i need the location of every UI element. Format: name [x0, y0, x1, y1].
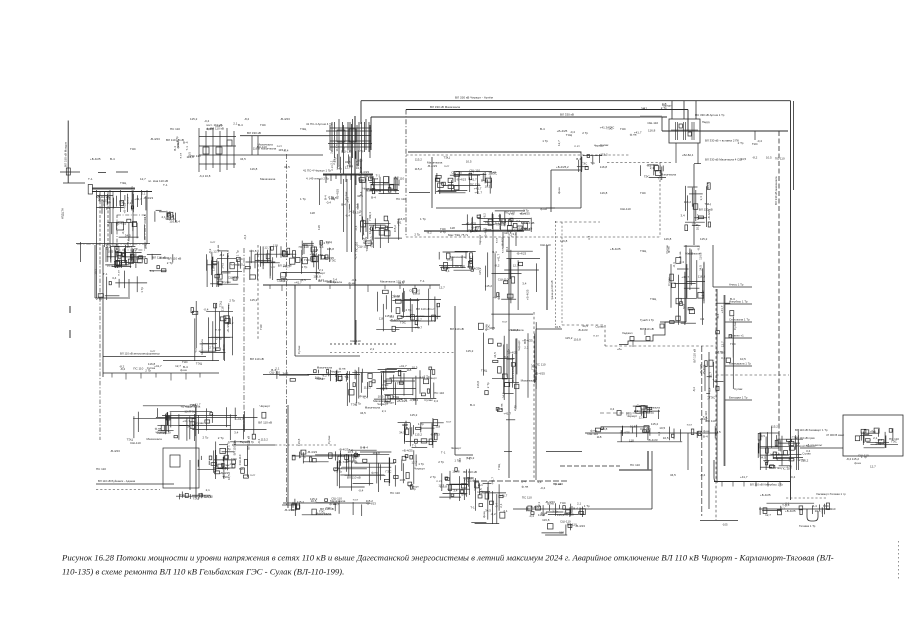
- svg-text:2 Тр: 2 Тр: [497, 213, 501, 219]
- svg-text:-0,4: -0,4: [326, 201, 332, 205]
- svg-text:ВЛ 110 кВ: ВЛ 110 кВ: [692, 349, 696, 363]
- wire long bus y285: [263, 284, 440, 286]
- svg-text:2 Тр: 2 Тр: [661, 106, 667, 110]
- svg-text:СШ-110: СШ-110: [130, 441, 141, 445]
- svg-text:-В-4/23: -В-4/23: [430, 433, 440, 437]
- svg-text:2,1: 2,1: [634, 409, 639, 413]
- svg-text:10,5: 10,5: [498, 223, 502, 229]
- boundary dashed right upper: [607, 162, 672, 164]
- right upper labels: [738, 139, 785, 161]
- svg-text:ф.на: ф.на: [114, 243, 118, 250]
- svg-text:115,2: 115,2: [261, 437, 269, 441]
- svg-text:Т-1: Т-1: [657, 176, 662, 180]
- labels right column: [795, 428, 828, 448]
- svg-text:Т-1: Т-1: [103, 272, 108, 276]
- svg-text:116,8: 116,8: [297, 438, 301, 446]
- svg-text:116,8: 116,8: [351, 454, 359, 458]
- boundary dash v716: [715, 289, 717, 520]
- wire staircase h322: [660, 321, 686, 323]
- wire right frame inner pair: [793, 101, 795, 190]
- wire x286 bottom hook: [282, 504, 295, 506]
- svg-text:п.ст: п.ст: [436, 479, 442, 483]
- bus285 label row: [277, 274, 357, 285]
- svg-text:В-4: В-4: [492, 250, 497, 254]
- wire third top bus: [371, 116, 667, 118]
- svg-text:12,7: 12,7: [130, 249, 136, 253]
- svg-text:ПС 110: ПС 110: [775, 156, 785, 160]
- svg-text:ф.на: ф.на: [540, 207, 547, 211]
- svg-text:Т-1: Т-1: [376, 174, 381, 178]
- svg-text:3,4: 3,4: [699, 196, 703, 201]
- boundary dashed top: [406, 154, 630, 156]
- svg-text:-8,2: -8,2: [494, 264, 500, 268]
- svg-text:+41,7: +41,7: [154, 364, 162, 368]
- svg-text:1 Тр: 1 Тр: [418, 462, 424, 466]
- left mid cluster extra: [94, 269, 148, 300]
- chain x509 side labels: [476, 314, 546, 400]
- svg-text:+41,7: +41,7: [503, 411, 511, 415]
- svg-text:3,4: 3,4: [587, 235, 591, 240]
- svg-text:-0,4: -0,4: [529, 514, 535, 518]
- svg-text:116,8: 116,8: [250, 167, 258, 171]
- svg-text:10,5: 10,5: [107, 264, 113, 268]
- svg-text:ПС 110: ПС 110: [257, 145, 267, 149]
- wire hook tyagovaya: [807, 509, 818, 521]
- substation hub upper ladder: [306, 119, 371, 174]
- bottom tiny cluster mid: [542, 518, 586, 535]
- h433 components: [587, 422, 721, 443]
- bus left substation thin pair: [92, 191, 152, 193]
- mid labels y330: [555, 324, 605, 341]
- wire left edge vertical: [80, 242, 82, 262]
- svg-text:Т-1: Т-1: [88, 177, 93, 181]
- svg-text:ф.на: ф.на: [854, 461, 861, 465]
- wire h285 ext ticks: [330, 284, 440, 286]
- wire v701 dash: [701, 346, 703, 516]
- substation Artem 330kV box: [669, 119, 700, 143]
- svg-text:+41,7: +41,7: [485, 220, 493, 224]
- svg-text:Сулак: Сулак: [637, 403, 646, 407]
- svg-text:ПС 110: ПС 110: [396, 197, 406, 201]
- svg-text:п.ст: п.ст: [281, 274, 287, 278]
- h373 taps: [112, 373, 200, 381]
- substation cluster c20: [245, 244, 326, 280]
- svg-text:СШ-110: СШ-110: [498, 278, 509, 282]
- svg-text:1 Тр: 1 Тр: [454, 459, 460, 463]
- svg-text:Т-1: Т-1: [149, 269, 154, 273]
- svg-text:ВЛ 110 кВ: ВЛ 110 кВ: [640, 327, 654, 331]
- svg-text:+41,7: +41,7: [399, 364, 407, 368]
- wire chain x509 lower: [508, 310, 510, 478]
- svg-text:2,1: 2,1: [524, 345, 529, 349]
- wire x536 corner v: [535, 329, 537, 480]
- wire v95: [94, 245, 96, 298]
- svg-text:3,4: 3,4: [721, 356, 726, 360]
- svg-text:-В-4/23: -В-4/23: [284, 508, 294, 512]
- svg-text:Махачкала: Махачкала: [685, 252, 701, 256]
- staircase substation steps: [617, 318, 686, 351]
- wire artem left drop: [661, 117, 663, 131]
- svg-text:-8,2: -8,2: [244, 117, 250, 121]
- svg-text:+41,7: +41,7: [700, 417, 708, 421]
- svg-text:Мах ТЭЦ 75,7к: Мах ТЭЦ 75,7к: [448, 233, 469, 237]
- svg-text:116,8: 116,8: [574, 338, 582, 342]
- svg-text:Сулак: Сулак: [734, 387, 743, 391]
- svg-text:+41,7: +41,7: [500, 493, 508, 497]
- svg-text:ТЭЦ: ТЭЦ: [196, 362, 203, 366]
- svg-text:3,4: 3,4: [657, 431, 661, 436]
- svg-text:+41,7: +41,7: [182, 419, 190, 423]
- wire grey hook h: [619, 469, 652, 471]
- svg-text:ВЛ 110 кВ: ВЛ 110 кВ: [463, 470, 477, 474]
- svg-text:ГЭС: ГЭС: [400, 321, 407, 325]
- svg-text:Т-1: Т-1: [364, 174, 369, 178]
- svg-text:Сулак: Сулак: [600, 143, 609, 147]
- wire left dropline a: [99, 192, 101, 260]
- svg-text:12,7: 12,7: [140, 177, 146, 181]
- svg-text:34,5: 34,5: [698, 265, 702, 271]
- svg-text:2 Тр: 2 Тр: [438, 460, 444, 464]
- wire hub tap south a: [343, 179, 345, 232]
- svg-text:12,7: 12,7: [557, 140, 561, 146]
- substation Zavodskaya: [462, 209, 535, 233]
- svg-text:Сулак: Сулак: [595, 325, 604, 329]
- svg-text:ГЭС: ГЭС: [440, 227, 447, 231]
- left block3 extra: [155, 405, 194, 440]
- svg-text:ВЛ 330 кВ Махачкала 4 СШ: ВЛ 330 кВ Махачкала 4 СШ: [705, 158, 742, 162]
- svg-text:+41,7: +41,7: [740, 475, 748, 479]
- svg-text:3,4: 3,4: [234, 431, 239, 435]
- wire h448 right: [800, 447, 843, 449]
- boundary dash v605: [604, 325, 606, 346]
- svg-text:12,7: 12,7: [184, 410, 190, 414]
- svg-text:34,5: 34,5: [336, 378, 342, 382]
- svg-text:34,5: 34,5: [283, 372, 289, 376]
- Artem chain components: [681, 182, 713, 230]
- svg-text:10,5: 10,5: [740, 357, 746, 361]
- svg-text:115,2: 115,2: [600, 152, 608, 156]
- wire second top bus: [406, 109, 688, 111]
- svg-text:ГЭС: ГЭС: [467, 476, 474, 480]
- svg-text:ф.на: ф.на: [180, 368, 187, 372]
- svg-text:Чирюрт: Чирюрт: [473, 480, 477, 491]
- wire zavod bus: [436, 207, 555, 209]
- svg-text:2,1: 2,1: [577, 502, 582, 506]
- svg-text:2,1: 2,1: [516, 219, 521, 223]
- svg-text:-В-4/23: -В-4/23: [575, 524, 585, 528]
- svg-text:Сулак: Сулак: [424, 398, 433, 402]
- svg-text:116,8: 116,8: [600, 191, 608, 195]
- svg-text:В-4: В-4: [481, 178, 486, 182]
- svg-text:10,5: 10,5: [348, 450, 354, 454]
- svg-text:Мамедкала 1 Тр: Мамедкала 1 Тр: [729, 362, 751, 366]
- boundary dash-dot x244: [243, 248, 245, 430]
- svg-text:115,2: 115,2: [478, 267, 482, 275]
- svg-text:34,5: 34,5: [284, 165, 290, 169]
- svg-text:2,1: 2,1: [329, 160, 333, 165]
- wire h360: [163, 360, 219, 362]
- svg-text:12,7: 12,7: [368, 228, 372, 234]
- substation c24 group: [376, 285, 445, 332]
- svg-text:116,8: 116,8: [335, 144, 339, 152]
- svg-text:В-4: В-4: [462, 493, 467, 497]
- svg-text:41 ПС-4 Артем 4 Тр: 41 ПС-4 Артем 4 Тр: [306, 122, 333, 126]
- svg-text:115,2: 115,2: [393, 225, 397, 233]
- svg-text:Чирюрт: Чирюрт: [451, 446, 462, 450]
- h509 components: [527, 500, 590, 518]
- svg-text:118: 118: [629, 439, 634, 443]
- svg-text:116,8: 116,8: [504, 231, 512, 235]
- svg-text:ПС 330 кВ Артем 1 Тр: ПС 330 кВ Артем 1 Тр: [695, 113, 725, 117]
- c26 below labels: [351, 396, 417, 413]
- substation c26 big: [347, 364, 444, 406]
- svg-text:116,8: 116,8: [664, 237, 672, 241]
- svg-text:116,8: 116,8: [542, 518, 550, 522]
- wire y208 ext: [546, 207, 581, 209]
- svg-text:ТЭЦ: ТЭЦ: [119, 201, 126, 205]
- svg-text:1 Тр: 1 Тр: [358, 149, 364, 153]
- svg-text:12,7: 12,7: [709, 372, 713, 378]
- svg-text:12,7: 12,7: [696, 214, 700, 220]
- svg-text:+Б-4/25: +Б-4/25: [466, 222, 477, 226]
- svg-text:ф.на: ф.на: [107, 197, 111, 204]
- svg-text:3,4: 3,4: [355, 204, 359, 209]
- svg-text:2 Тр: 2 Тр: [203, 435, 209, 439]
- svg-text:ТЭЦ: ТЭЦ: [351, 402, 358, 406]
- wire h445 dash: [275, 444, 338, 446]
- svg-text:2 Тр: 2 Тр: [406, 308, 412, 312]
- svg-text:2,1: 2,1: [275, 367, 280, 371]
- chain 493 labels: [483, 213, 512, 262]
- boundary dash x534: [533, 312, 535, 480]
- svg-text:СШ-110: СШ-110: [312, 253, 323, 257]
- svg-text:115,2: 115,2: [297, 500, 305, 504]
- wire left bus top of block2: [76, 243, 150, 245]
- wire h433 chain: [585, 432, 718, 434]
- svg-text:10,5: 10,5: [400, 478, 406, 482]
- svg-text:1 Тр: 1 Тр: [330, 280, 336, 284]
- wire h481 chain: [473, 480, 569, 482]
- wire h481 right: [714, 481, 790, 483]
- svg-text:116,8: 116,8: [706, 182, 710, 190]
- wire artem h163: [694, 163, 701, 165]
- svg-text:2,1: 2,1: [503, 509, 508, 513]
- svg-text:п.ст: п.ст: [682, 303, 686, 309]
- svg-text:Белиджи 1 Тр: Белиджи 1 Тр: [729, 396, 748, 400]
- svg-text:+41,7: +41,7: [283, 264, 291, 268]
- svg-text:В-4: В-4: [716, 313, 720, 318]
- svg-text:+Б-4/25: +Б-4/25: [522, 338, 533, 342]
- svg-text:34,5: 34,5: [502, 392, 506, 398]
- svg-text:-В-4/23: -В-4/23: [366, 502, 376, 506]
- svg-text:2,1: 2,1: [650, 166, 655, 170]
- svg-text:10,5: 10,5: [136, 257, 142, 261]
- svg-text:-8,2: -8,2: [219, 253, 225, 257]
- svg-text:ВЛ 110 кВ: ВЛ 110 кВ: [168, 257, 182, 261]
- h503 components: [284, 497, 376, 517]
- svg-text:3,4: 3,4: [112, 276, 117, 280]
- svg-text:-В-4/23: -В-4/23: [456, 178, 466, 182]
- svg-text:+41,7: +41,7: [236, 417, 244, 421]
- hub right rotated labels: [354, 174, 377, 259]
- svg-text:Махачкала: Махачкала: [365, 406, 381, 410]
- wire left stub: [63, 182, 85, 184]
- wire left dropline a2: [107, 192, 109, 252]
- svg-text:Чирюрт: Чирюрт: [627, 414, 638, 418]
- svg-text:СШ-110: СШ-110: [620, 207, 631, 211]
- wire v196: [195, 405, 197, 498]
- svg-text:Чирюрт: Чирюрт: [478, 234, 482, 245]
- svg-text:граница 110 кВ: граница 110 кВ: [550, 280, 554, 300]
- wire chain x493: [492, 214, 494, 330]
- svg-text:Т-1: Т-1: [344, 375, 349, 379]
- svg-text:+Б2-Б2,4: +Б2-Б2,4: [682, 153, 694, 157]
- svg-text:110-135) в схеме ремонта ВЛ 1: 110-135) в схеме ремонта ВЛ 110 кВ Гельб…: [62, 567, 344, 577]
- wire left feeder crossarm: [60, 171, 80, 173]
- x709 comps: [702, 360, 717, 419]
- svg-text:34,5: 34,5: [760, 456, 766, 460]
- svg-text:2,1: 2,1: [775, 452, 780, 456]
- svg-text:ВЛ 110 кВ Буйнакск - Аданак: ВЛ 110 кВ Буйнакск - Аданак: [98, 479, 136, 483]
- svg-text:1 Тр: 1 Тр: [542, 139, 548, 143]
- bus left substation 330/110 thick: [92, 188, 135, 190]
- svg-text:ГЭС: ГЭС: [620, 127, 627, 131]
- svg-text:2,1: 2,1: [329, 149, 333, 154]
- svg-text:115,2: 115,2: [771, 425, 779, 429]
- svg-text:ПС 110: ПС 110: [470, 183, 480, 187]
- artifact left tick b: [69, 330, 71, 338]
- wire ring box bottom dots: [330, 343, 396, 345]
- box c33 outline: [163, 448, 199, 488]
- svg-text:2 Тр: 2 Тр: [175, 136, 179, 142]
- svg-text:2 Тр: 2 Тр: [209, 346, 215, 350]
- svg-text:115,2: 115,2: [415, 167, 423, 171]
- svg-text:ПС 110: ПС 110: [170, 127, 180, 131]
- svg-text:10,5: 10,5: [630, 425, 636, 429]
- svg-text:Чирюрт: Чирюрт: [377, 402, 388, 406]
- svg-text:34,5: 34,5: [331, 196, 337, 200]
- svg-text:-0,4: -0,4: [204, 119, 210, 123]
- svg-text:-0,4: -0,4: [237, 257, 243, 261]
- svg-text:п.ст: п.ст: [216, 327, 222, 331]
- svg-text:2 Тр: 2 Тр: [414, 232, 420, 236]
- svg-text:12,7: 12,7: [439, 285, 445, 289]
- svg-text:115,2: 115,2: [190, 117, 198, 121]
- svg-text:+Б-4/25: +Б-4/25: [525, 289, 529, 300]
- svg-text:Хаджал: Хаджал: [622, 331, 633, 335]
- wire h413 dash: [600, 412, 654, 414]
- svg-text:п.ст: п.ст: [574, 144, 580, 148]
- wire v356 tick: [355, 320, 357, 345]
- svg-text:10,5: 10,5: [489, 326, 495, 330]
- wire x713 corner: [713, 286, 725, 288]
- chain x686 components: [665, 244, 705, 325]
- artem top labels: [641, 102, 673, 110]
- wire x547 heavy: [546, 245, 548, 310]
- svg-text:1 Тр: 1 Тр: [235, 250, 239, 256]
- wire second link: [236, 154, 323, 156]
- left small tap cluster: [155, 210, 180, 223]
- svg-text:п.ст: п.ст: [227, 303, 231, 309]
- svg-text:ф.на: ф.на: [557, 187, 561, 194]
- svg-text:3,4: 3,4: [610, 407, 615, 411]
- svg-text:1 Тр: 1 Тр: [225, 447, 231, 451]
- svg-text:118: 118: [233, 440, 237, 445]
- svg-text:115,2: 115,2: [651, 422, 659, 426]
- svg-text:+41,7: +41,7: [491, 477, 495, 485]
- wire v141 drop: [141, 190, 143, 205]
- substation big c32: [127, 403, 272, 442]
- svg-text:Сулак: Сулак: [564, 510, 573, 514]
- wire v196 comps: [189, 460, 191, 490]
- svg-text:2 Тр: 2 Тр: [692, 223, 698, 227]
- svg-text:ВЛ 110 кВ: ВЛ 110 кВ: [347, 475, 361, 479]
- svg-text:В-4: В-4: [703, 435, 708, 439]
- wire region main line: [408, 151, 581, 153]
- wire x713 upper: [712, 245, 714, 287]
- svg-text:Сулак: Сулак: [195, 421, 204, 425]
- svg-text:Т-1: Т-1: [590, 161, 595, 165]
- chain x717 taps and labels: [725, 283, 752, 401]
- svg-text:47 000 В макс: 47 000 В макс: [826, 433, 845, 437]
- wire Artem south b: [697, 143, 699, 164]
- svg-text:10,5: 10,5: [485, 184, 491, 188]
- svg-text:Т-1: Т-1: [420, 279, 425, 283]
- svg-text:ф.на: ф.на: [547, 502, 554, 506]
- svg-text:ПС 110: ПС 110: [536, 363, 546, 367]
- svg-text:12,7: 12,7: [411, 460, 417, 464]
- svg-text:-В-4/23: -В-4/23: [110, 449, 120, 453]
- region small cluster NE: [576, 152, 608, 172]
- wire top stub artem b: [683, 101, 685, 119]
- svg-text:Махачкала: Махачкала: [330, 499, 346, 503]
- svg-text:ф.на: ф.на: [216, 245, 220, 252]
- svg-text:2,1: 2,1: [337, 165, 341, 170]
- svg-text:ф.на: ф.на: [496, 293, 500, 300]
- node top-left corner riser Chiryurt: [360, 101, 362, 124]
- svg-text:ф.на: ф.на: [222, 344, 226, 351]
- svg-text:п.ст: п.ст: [210, 240, 216, 244]
- wire y466 seg: [560, 465, 620, 467]
- artifact right dotted: [898, 541, 900, 581]
- svg-text:Тяговая 1 Тр: Тяговая 1 Тр: [799, 524, 816, 528]
- svg-text:п.ст: п.ст: [593, 334, 599, 338]
- svg-text:ТЭЦ: ТЭЦ: [300, 127, 307, 131]
- svg-text:12,7: 12,7: [870, 465, 876, 469]
- bus left substation cap: [88, 185, 92, 195]
- svg-text:116,8: 116,8: [249, 249, 257, 253]
- wire aerodrom link: [409, 192, 430, 194]
- svg-text:ТЭЦ: ТЭЦ: [640, 249, 647, 253]
- svg-text:115,2: 115,2: [385, 314, 393, 318]
- svg-text:ТЭЦ: ТЭЦ: [365, 245, 369, 252]
- svg-text:ГЭС: ГЭС: [386, 470, 393, 474]
- svg-text:-0,4: -0,4: [345, 213, 351, 217]
- svg-text:12,7: 12,7: [765, 513, 771, 517]
- svg-text:3,4: 3,4: [412, 397, 417, 401]
- svg-text:Рисунок 16.28 Потоки мощности: Рисунок 16.28 Потоки мощности и уровни н…: [61, 553, 834, 563]
- svg-text:+41,7: +41,7: [415, 325, 423, 329]
- boundary dash-dot vertical x406: [405, 110, 407, 238]
- svg-text:4. (49 генер) 2 Тр: 4. (49 генер) 2 Тр: [306, 177, 329, 181]
- svg-text:-0,4: -0,4: [203, 308, 209, 312]
- svg-text:115,2: 115,2: [466, 349, 474, 353]
- svg-text:Махачкала: Махачкала: [427, 161, 443, 165]
- svg-text:12,7: 12,7: [438, 483, 444, 487]
- svg-text:В-4: В-4: [576, 157, 581, 161]
- svg-text:115,2: 115,2: [557, 513, 565, 517]
- svg-text:СШ-110: СШ-110: [238, 454, 242, 465]
